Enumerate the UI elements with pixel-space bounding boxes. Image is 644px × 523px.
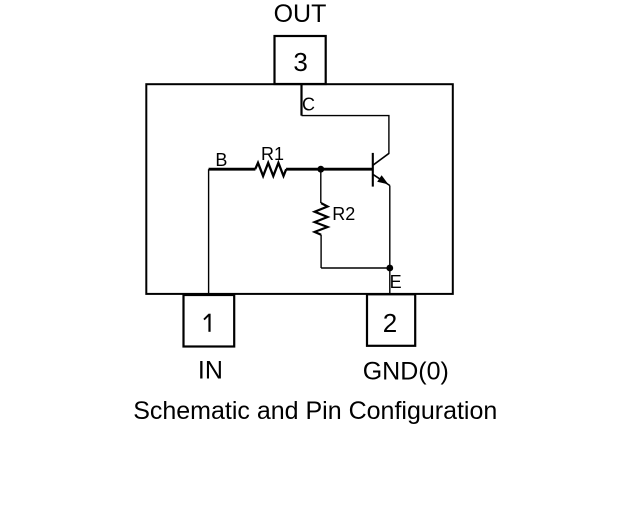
svg-text:OUT: OUT (274, 0, 327, 28)
svg-text:C: C (302, 95, 315, 115)
svg-text:2: 2 (383, 308, 397, 338)
svg-text:R1: R1 (261, 144, 284, 164)
svg-text:B: B (215, 150, 227, 170)
svg-text:Schematic and Pin Configuratio: Schematic and Pin Configuration (133, 397, 497, 425)
svg-text:E: E (390, 272, 402, 292)
svg-text:R2: R2 (332, 204, 355, 224)
svg-text:3: 3 (293, 47, 307, 77)
svg-text:GND(0): GND(0) (363, 357, 449, 385)
svg-text:IN: IN (198, 357, 223, 385)
